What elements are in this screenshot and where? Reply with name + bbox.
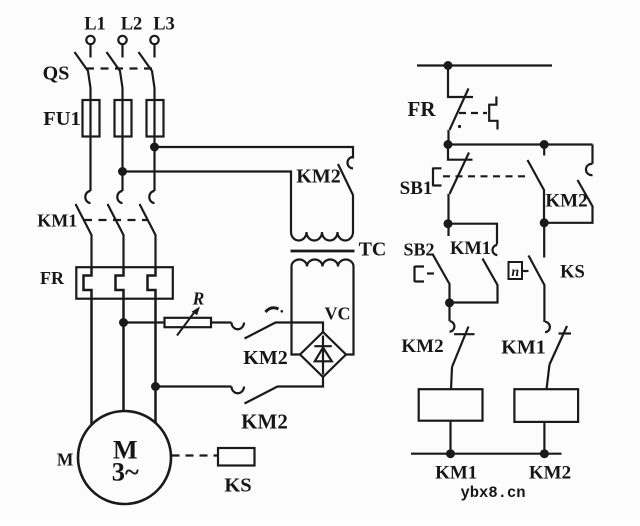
svg-text:ybx8.cn: ybx8.cn: [460, 484, 525, 502]
svg-text:KM2: KM2: [401, 336, 443, 357]
svg-text:KM1: KM1: [37, 211, 77, 231]
svg-text:R: R: [192, 289, 205, 309]
svg-text:FU1: FU1: [43, 108, 81, 130]
svg-text:KM2: KM2: [243, 347, 287, 369]
svg-text:M: M: [57, 450, 74, 470]
svg-text:KM2: KM2: [529, 463, 571, 484]
svg-text:KM1: KM1: [501, 337, 545, 359]
svg-text:QS: QS: [43, 63, 70, 85]
svg-text:KS: KS: [224, 475, 251, 497]
svg-text:KM2: KM2: [545, 191, 587, 212]
svg-text:3~: 3~: [112, 457, 139, 487]
svg-text:TC: TC: [359, 239, 387, 261]
svg-text:KM2: KM2: [241, 410, 288, 434]
svg-text:KM1: KM1: [450, 239, 491, 259]
svg-text:SB2: SB2: [403, 240, 434, 260]
svg-text:FR: FR: [408, 97, 437, 121]
svg-text:FR: FR: [40, 268, 65, 288]
svg-text:L2: L2: [121, 15, 143, 35]
svg-text:KM1: KM1: [435, 463, 477, 484]
svg-text:SB1: SB1: [400, 178, 433, 199]
svg-text:VC: VC: [325, 304, 351, 324]
svg-text:KM2: KM2: [296, 166, 340, 188]
svg-text:L1: L1: [84, 15, 106, 35]
svg-text:L3: L3: [153, 15, 175, 35]
svg-text:n: n: [511, 265, 519, 280]
svg-text:KS: KS: [560, 263, 585, 283]
